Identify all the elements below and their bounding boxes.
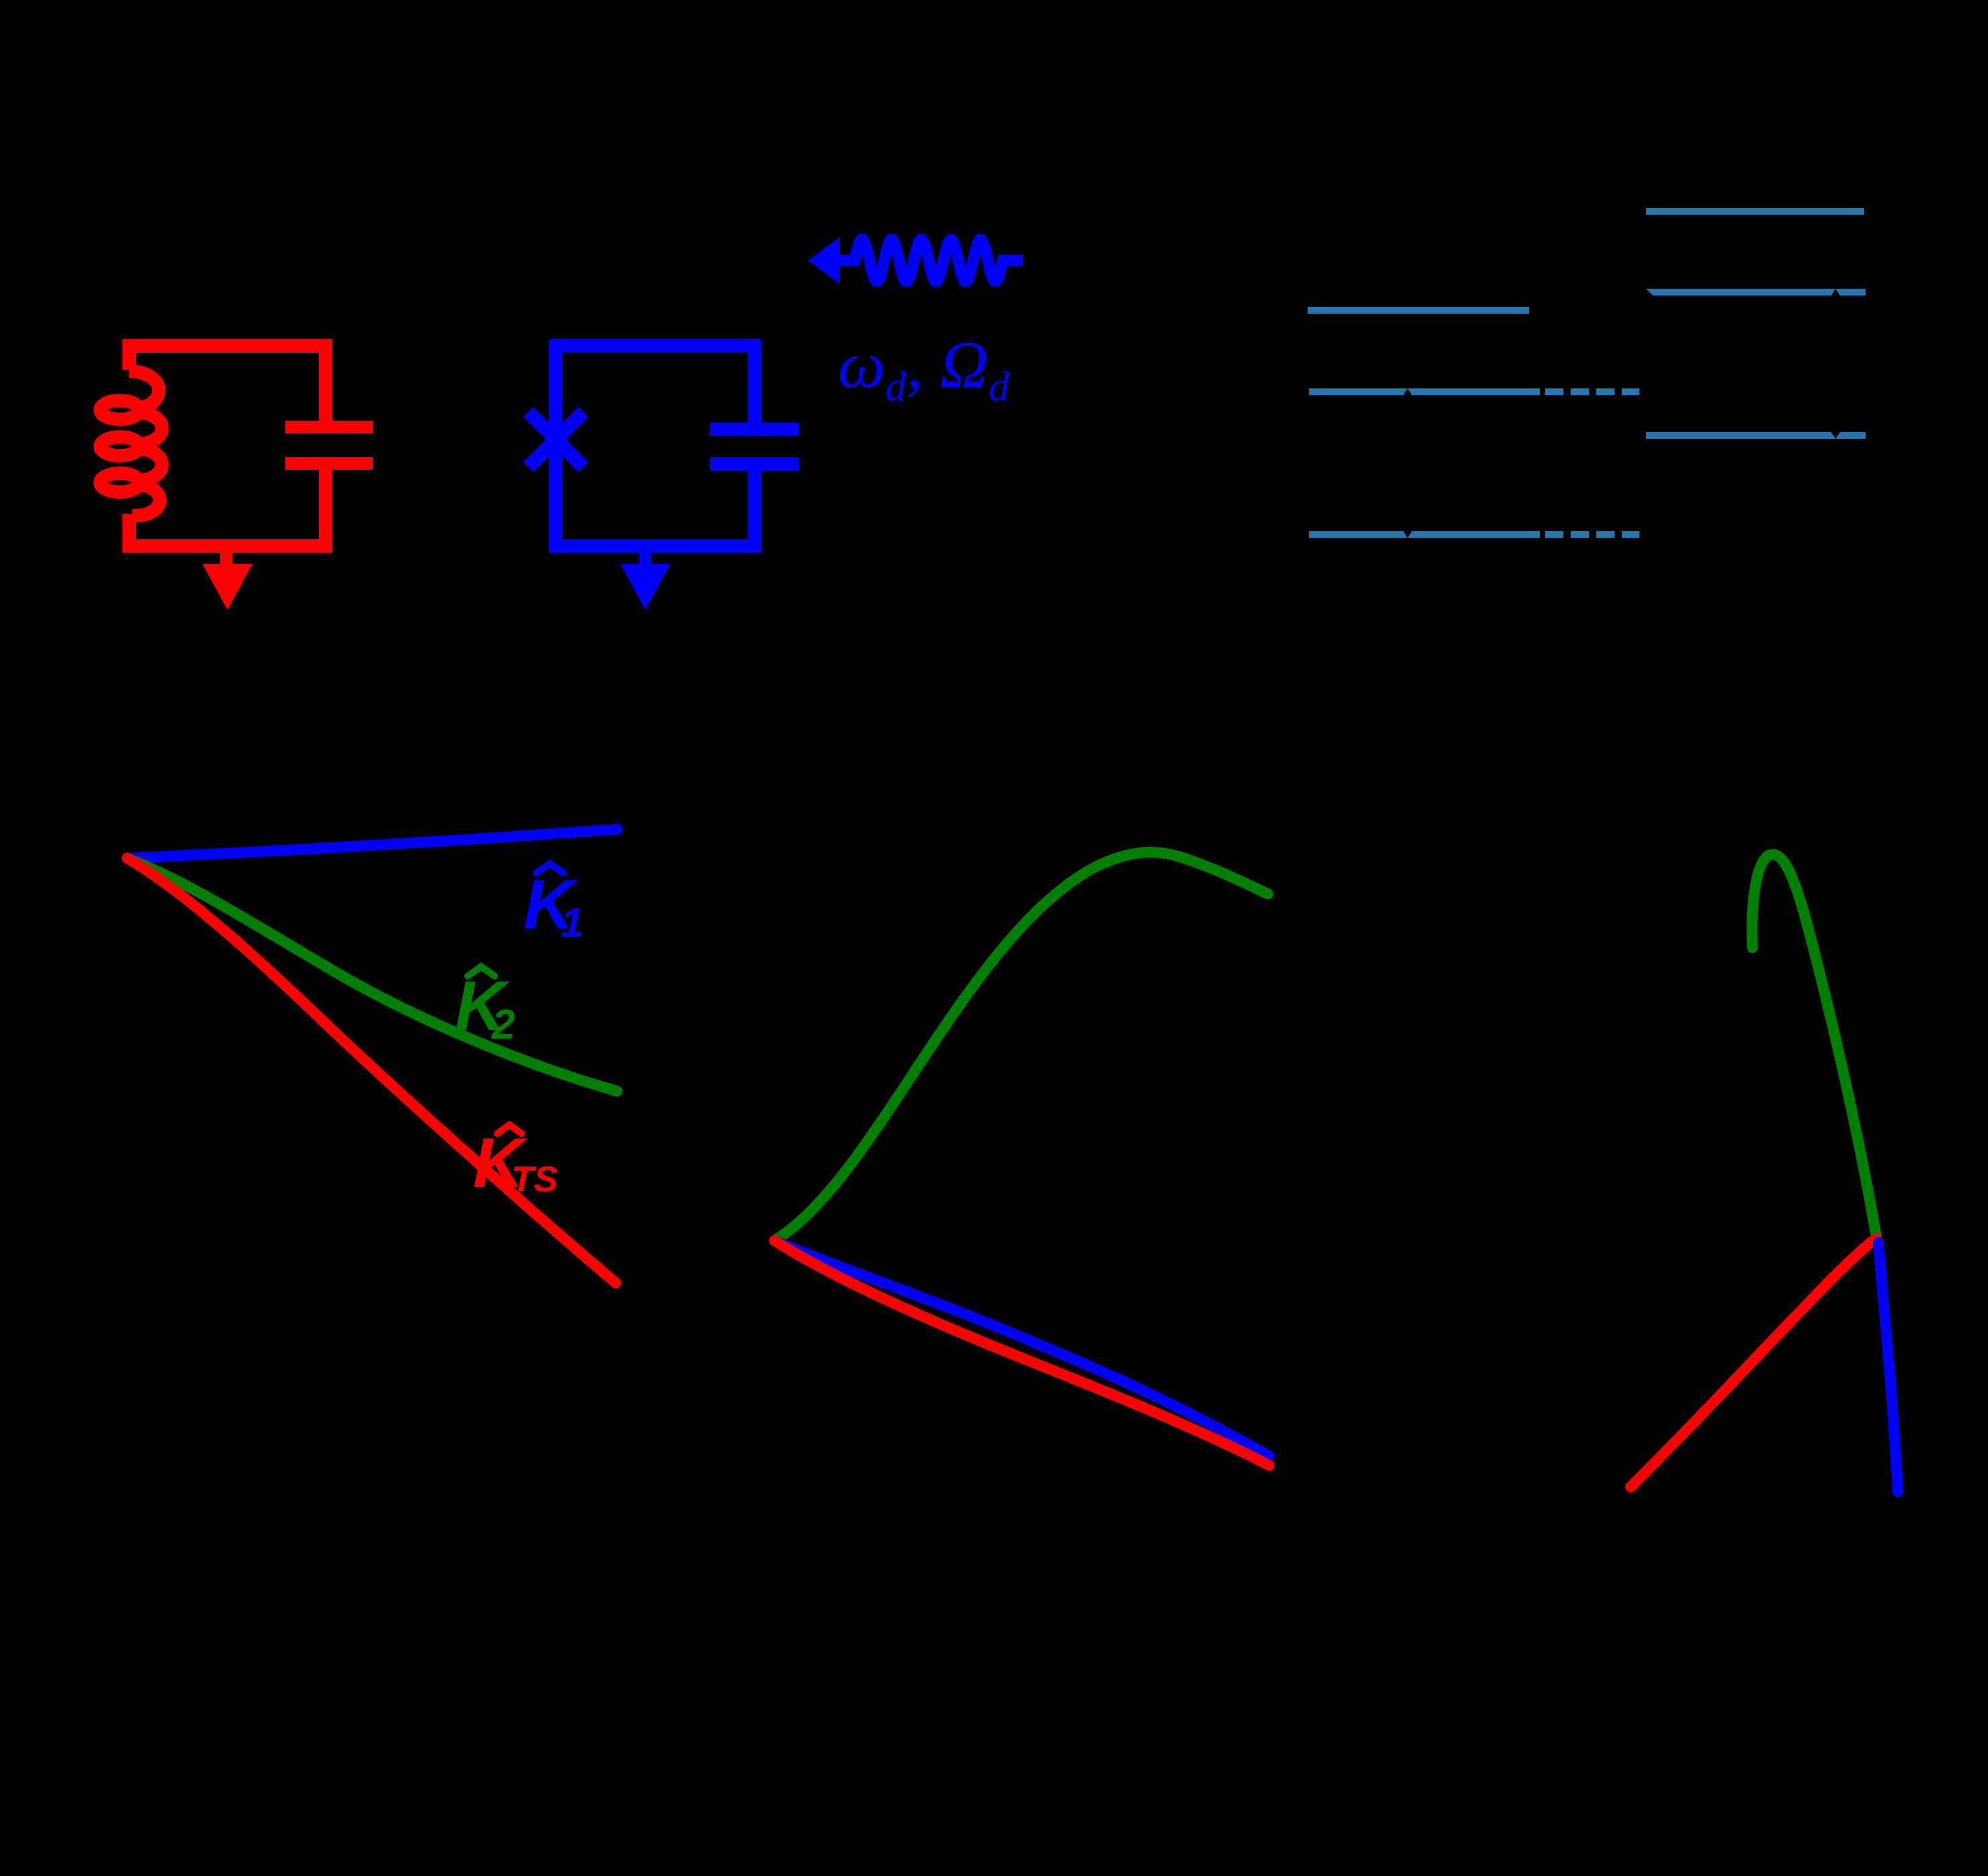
svg-text:TS: TS: [511, 1159, 558, 1200]
svg-text:1: 1: [561, 900, 583, 946]
svg-text:2: 2: [491, 1002, 515, 1048]
svg-text:ωd, Ωd: ωd, Ωd: [838, 327, 1010, 410]
